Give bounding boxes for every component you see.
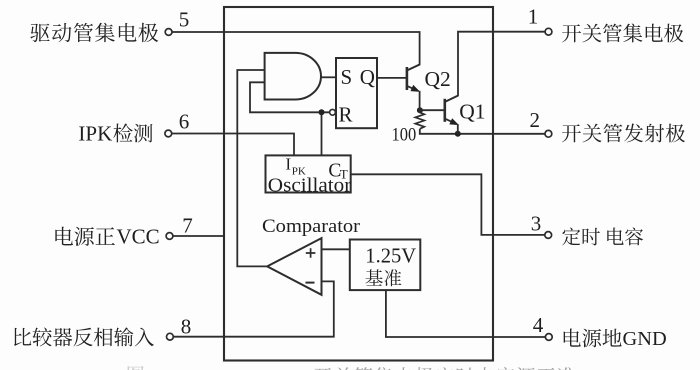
svg-text:Q2: Q2 [425,67,451,91]
svg-text:7: 7 [182,214,193,238]
svg-text:IPK: IPK [78,122,112,146]
svg-text:Comparator: Comparator [262,217,360,237]
svg-text:1.25V: 1.25V [365,243,416,267]
svg-text:VCC: VCC [117,225,160,249]
svg-text:5: 5 [179,8,190,32]
svg-text:3: 3 [531,212,542,236]
svg-text:6: 6 [179,110,190,134]
svg-text:2: 2 [530,108,541,132]
svg-text:S: S [341,65,353,89]
svg-text:1: 1 [528,5,539,29]
svg-text:8: 8 [181,315,192,339]
svg-text:GND: GND [623,328,667,350]
svg-text:100: 100 [392,124,417,145]
svg-text:I: I [286,154,292,173]
svg-text:Oscillator: Oscillator [268,175,352,196]
svg-text:R: R [339,102,353,126]
svg-text:Q: Q [360,65,375,89]
svg-text:4: 4 [533,313,544,337]
svg-text:Q1: Q1 [459,100,485,124]
